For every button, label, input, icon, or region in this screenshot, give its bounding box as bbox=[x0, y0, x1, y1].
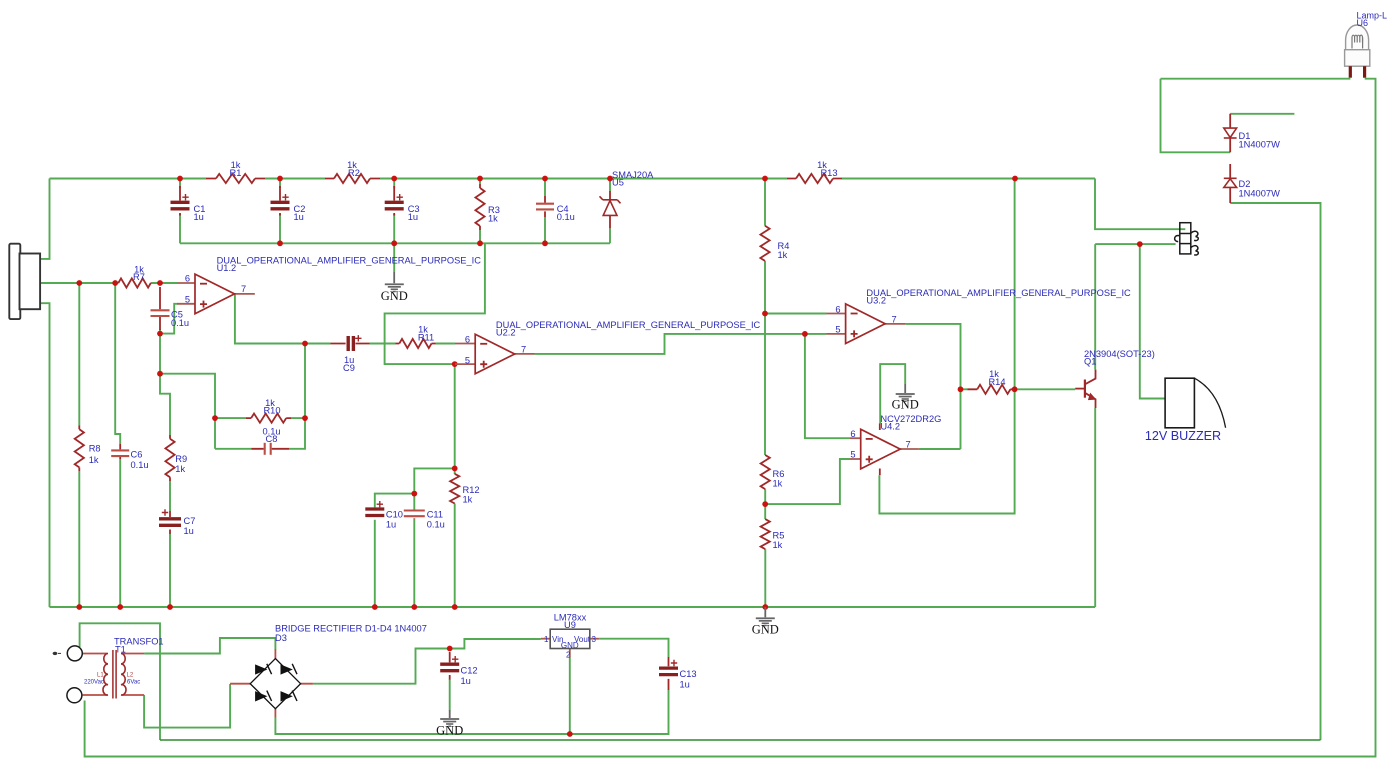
wire collector row bbox=[1095, 243, 1175, 245]
capacitor C12 plus mark bbox=[452, 656, 458, 662]
svg-text:6: 6 bbox=[185, 274, 190, 284]
svg-text:1k: 1k bbox=[778, 250, 788, 260]
wire bridge minus row bbox=[275, 690, 668, 734]
svg-text:1u: 1u bbox=[194, 212, 204, 222]
wire U3.2 pin5 col to U4.2 pin6 bbox=[805, 334, 850, 438]
svg-text:6: 6 bbox=[850, 429, 855, 439]
junction at 115.2,283 bbox=[112, 280, 118, 286]
svg-text:U9: U9 bbox=[564, 620, 576, 630]
op-amp U4.2 bottom supply pin bbox=[879, 469, 881, 476]
resistor R4 bbox=[760, 226, 769, 261]
capacitor C2 plates bbox=[271, 202, 290, 209]
junction at 804.9,333.9 bbox=[802, 331, 808, 337]
svg-text:DUAL_OPERATIONAL_AMPLIFIER_GEN: DUAL_OPERATIONAL_AMPLIFIER_GENERAL_PURPO… bbox=[496, 320, 761, 330]
ground GND4 bbox=[440, 718, 459, 727]
junction at 765,178.5 bbox=[762, 176, 768, 182]
svg-text:C12: C12 bbox=[461, 666, 478, 676]
wire R14 left stub bbox=[961, 388, 968, 390]
capacitor C7 plus mark bbox=[162, 509, 168, 515]
junction at 120.2,607 bbox=[117, 604, 123, 610]
wire D1 top stub row bbox=[1230, 113, 1294, 115]
diode D2 bbox=[1224, 178, 1237, 187]
junction at 180,178.5 bbox=[177, 176, 183, 182]
resistor R8 leads bbox=[78, 426, 80, 472]
capacitor C6 leads bbox=[119, 444, 121, 459]
junction at 1139.8,244.1 bbox=[1137, 241, 1143, 247]
capacitor C13 plus mark bbox=[671, 660, 677, 666]
svg-text:R10: R10 bbox=[263, 406, 280, 416]
ground GND2 stem bbox=[764, 607, 766, 617]
resistor R12 leads bbox=[454, 474, 456, 504]
svg-text:5: 5 bbox=[835, 325, 840, 335]
svg-text:1k: 1k bbox=[488, 213, 498, 223]
wire R3 bottom stub bbox=[479, 230, 481, 243]
wire R12 top link bbox=[414, 468, 454, 493]
svg-text:GND: GND bbox=[381, 289, 408, 303]
wire C11 bottom bbox=[413, 519, 415, 607]
junction at 765.3,607 bbox=[762, 604, 768, 610]
svg-text:R13: R13 bbox=[820, 168, 837, 178]
svg-text:1u: 1u bbox=[461, 676, 471, 686]
junction at 480,178.5 bbox=[477, 176, 483, 182]
op-amp U1.2 bbox=[195, 274, 235, 314]
wire C12 to U9 jog bbox=[450, 639, 541, 649]
transformer T1 secondary pins bbox=[122, 654, 145, 696]
wire C8 row right bbox=[289, 344, 305, 449]
resistor R3 bbox=[475, 188, 484, 226]
op-amp U4.2 pin6 lead bbox=[850, 437, 861, 439]
capacitor C3 plus mark bbox=[397, 194, 403, 200]
junction at 160,373.7 bbox=[157, 371, 163, 377]
AC plug P1 mark bbox=[53, 652, 58, 655]
svg-text:U2.2: U2.2 bbox=[496, 328, 516, 338]
transistor Q1 bbox=[1075, 370, 1095, 408]
junction at 765,313.5 bbox=[762, 311, 768, 317]
junction at 960.5,389.3 bbox=[958, 386, 964, 392]
svg-text:7: 7 bbox=[241, 284, 246, 294]
zener diode U5 bbox=[600, 196, 621, 215]
wire top bus segment D bbox=[842, 178, 1095, 180]
op-amp U3.2 pin6 lead bbox=[827, 313, 846, 315]
junction at 569.8,734 bbox=[567, 731, 573, 737]
op-amp U4.2 top supply pin bbox=[879, 424, 881, 431]
junction at 1014.6,389.3 bbox=[1012, 386, 1018, 392]
wire node to R9 jog bbox=[160, 374, 170, 435]
resistor R12 bbox=[450, 474, 459, 504]
svg-text:R11: R11 bbox=[418, 332, 434, 342]
wire C10 bottom bbox=[374, 520, 376, 607]
wire C4 top stub bbox=[544, 179, 546, 197]
junction at 414.3,607 bbox=[411, 604, 417, 610]
wire top bus segment A bbox=[50, 178, 207, 180]
op-amp U4.2 pin7 lead bbox=[898, 448, 919, 450]
wire C1 top stub bbox=[179, 179, 181, 189]
resistor R8 bbox=[75, 429, 84, 467]
capacitor C3 leads bbox=[393, 186, 395, 216]
wire U2.2 output row bbox=[535, 334, 827, 354]
wire top bus segment B bbox=[265, 178, 325, 180]
ground GND1 stem bbox=[393, 272, 395, 283]
resistor R11 leads bbox=[396, 343, 436, 345]
junction at 545,243.3 bbox=[542, 240, 548, 246]
wire C9 right link bbox=[370, 343, 396, 345]
wire C6 column bottom bbox=[119, 459, 121, 607]
wire C1 bottom stub bbox=[179, 214, 181, 243]
wire R14 to Q1 base bbox=[1015, 388, 1076, 390]
capacitor C8 plates bbox=[265, 443, 271, 455]
wire R5 node to U4.2 pin5 bbox=[765, 459, 850, 504]
svg-text:T1: T1 bbox=[115, 644, 126, 654]
wire rail to U2.2 pin5 bbox=[385, 243, 485, 364]
capacitor C10 leads bbox=[374, 507, 376, 520]
capacitor C1 leads bbox=[179, 186, 181, 216]
op-amp U3.2 pin5 lead bbox=[827, 333, 846, 335]
capacitor C7 plates bbox=[159, 519, 181, 526]
junction at 305,343.5 bbox=[302, 341, 308, 347]
svg-text:BRIDGE RECTIFIER D1-D4 1N4007: BRIDGE RECTIFIER D1-D4 1N4007 bbox=[275, 624, 427, 634]
wire R12 bottom bbox=[454, 504, 456, 608]
svg-text:C8: C8 bbox=[266, 434, 278, 444]
op-amp U4.2 pin5 lead bbox=[850, 458, 861, 460]
junction at 79.3,283 bbox=[76, 280, 82, 286]
wire mains row dark bbox=[160, 739, 1321, 741]
wire C11 top stub bbox=[413, 494, 415, 510]
svg-text:L2: L2 bbox=[127, 673, 134, 679]
capacitor C6 plates bbox=[111, 450, 129, 456]
junction at 394.2,178.5 bbox=[391, 176, 397, 182]
wire U2.2 pin5 col down bbox=[454, 364, 456, 468]
svg-text:R5: R5 bbox=[773, 531, 785, 541]
wire ground bus bbox=[50, 606, 1096, 608]
junction at 454.7,364.1 bbox=[452, 361, 458, 367]
capacitor C8 leads bbox=[252, 448, 290, 450]
capacitor C11 plates bbox=[404, 511, 425, 517]
svg-text:C11: C11 bbox=[427, 510, 443, 520]
junction at 454.7,468.4 bbox=[452, 466, 458, 472]
svg-text:R7: R7 bbox=[133, 272, 145, 282]
junction at 305,418.1 bbox=[302, 415, 308, 421]
svg-text:1k: 1k bbox=[175, 464, 185, 474]
junction at 170,607 bbox=[167, 604, 173, 610]
svg-text:C10: C10 bbox=[386, 510, 403, 520]
svg-text:5: 5 bbox=[185, 295, 190, 305]
wire R8 column top bbox=[78, 283, 80, 426]
wire R10 left link bbox=[215, 417, 246, 419]
capacitor C9 plates bbox=[348, 336, 353, 351]
svg-text:L1: L1 bbox=[97, 673, 104, 679]
op-amp U1.2 pin7 lead bbox=[235, 293, 255, 295]
svg-text:6: 6 bbox=[465, 335, 470, 345]
svg-text:7: 7 bbox=[521, 344, 526, 354]
wire U5 bottom stub bbox=[609, 228, 611, 243]
svg-text:R12: R12 bbox=[463, 485, 480, 495]
svg-text:6Vac: 6Vac bbox=[127, 680, 140, 686]
capacitor C10 plus mark bbox=[377, 501, 383, 507]
lamp U6 bbox=[1345, 25, 1370, 66]
junction at 160,333.6 bbox=[157, 331, 163, 337]
svg-text:1k: 1k bbox=[89, 455, 99, 465]
capacitor C4 plates bbox=[536, 204, 554, 210]
wire top bus segment C bbox=[380, 178, 787, 180]
svg-text:5: 5 bbox=[465, 355, 470, 365]
transformer T1 windings bbox=[103, 650, 126, 699]
wire D1 bottom loop bbox=[1161, 79, 1231, 153]
junction at 280,178.5 bbox=[277, 176, 283, 182]
resistor R1 leads bbox=[206, 178, 265, 180]
op-amp U2.2 bbox=[475, 334, 515, 374]
wire R7 to C5 node bbox=[151, 282, 177, 284]
wire C3 bottom stub bbox=[393, 214, 395, 243]
svg-text:220Vac: 220Vac bbox=[84, 680, 104, 686]
svg-text:R6: R6 bbox=[773, 469, 785, 479]
svg-text:7: 7 bbox=[892, 314, 897, 324]
svg-text:R2: R2 bbox=[348, 168, 360, 178]
op-amp U2.2 pin5 lead bbox=[455, 363, 475, 365]
wire GND1 stub bbox=[393, 243, 395, 272]
wire R11 to U2.2 pin6 bbox=[436, 343, 456, 345]
U9 pin2 lead bbox=[569, 649, 571, 658]
wire R9 to C7 bbox=[169, 481, 171, 511]
svg-text:0.1u: 0.1u bbox=[171, 318, 189, 328]
svg-text:R8: R8 bbox=[89, 444, 101, 454]
capacitor C13 leads bbox=[668, 657, 670, 690]
svg-text:R14: R14 bbox=[988, 377, 1005, 387]
wire R8 column bottom bbox=[78, 471, 80, 607]
resistor R13 leads bbox=[787, 178, 842, 180]
junction at 454.7,607 bbox=[452, 604, 458, 610]
bridge rectifier D3 diodes bbox=[256, 664, 297, 701]
wire U9 out to C13 bbox=[599, 639, 668, 657]
svg-text:U5: U5 bbox=[612, 178, 624, 188]
svg-text:U1.2: U1.2 bbox=[217, 263, 237, 273]
wire U4.2 vplus loop bbox=[879, 179, 1014, 514]
wire U3.2 pin6 row bbox=[765, 313, 827, 315]
op-amp U1.2 pin6 lead bbox=[177, 282, 195, 284]
wire Q1 emitter col bbox=[1094, 408, 1096, 607]
svg-text:1u: 1u bbox=[184, 526, 194, 536]
junction at 280,243.3 bbox=[277, 240, 283, 246]
svg-text:1u: 1u bbox=[408, 212, 418, 222]
wire C12 bottom bbox=[449, 679, 451, 711]
svg-text:3: 3 bbox=[592, 635, 597, 644]
junction at 414.3,493.6 bbox=[411, 491, 417, 497]
capacitor C1 plus mark bbox=[182, 194, 188, 200]
svg-text:2: 2 bbox=[566, 651, 571, 660]
wire C3 top stub bbox=[393, 179, 395, 189]
capacitor C12 plates bbox=[440, 664, 459, 671]
capacitor C13 plates bbox=[659, 668, 678, 675]
svg-text:U4.2: U4.2 bbox=[880, 422, 900, 432]
svg-text:Q1: Q1 bbox=[1084, 357, 1096, 367]
op-amp U1.2 pin5 lead bbox=[177, 303, 195, 305]
wire R5 bottom bbox=[764, 549, 766, 607]
ground GND3 bbox=[896, 393, 915, 402]
wire mid rail bbox=[180, 242, 610, 244]
resistor R11 bbox=[399, 339, 431, 348]
resistor R13 bbox=[796, 174, 833, 183]
resistor R9 leads bbox=[169, 435, 171, 481]
op-amp U2.2 pin6 lead bbox=[455, 343, 475, 345]
svg-text:U6: U6 bbox=[1357, 18, 1369, 28]
zener diode U5 leads bbox=[609, 191, 611, 228]
wire R10 right link bbox=[291, 417, 305, 419]
wire plug1 over loop bbox=[80, 623, 160, 740]
wire R10 feedback top bbox=[160, 374, 215, 449]
svg-text:D2: D2 bbox=[1239, 179, 1251, 189]
junction at 765.2,504.1 bbox=[762, 501, 768, 507]
junction at 374.8,607 bbox=[372, 604, 378, 610]
resistor R2 bbox=[334, 174, 370, 183]
AC plug P1 bbox=[67, 646, 82, 661]
svg-text:6: 6 bbox=[835, 304, 840, 314]
svg-text:0.1u: 0.1u bbox=[427, 519, 445, 529]
wire mic top stub to top bus bbox=[40, 179, 50, 259]
svg-text:C7: C7 bbox=[184, 516, 196, 526]
wire U1.2 output down bbox=[235, 294, 331, 344]
svg-text:1N4007W: 1N4007W bbox=[1239, 188, 1281, 198]
svg-text:DUAL_OPERATIONAL_AMPLIFIER_GEN: DUAL_OPERATIONAL_AMPLIFIER_GENERAL_PURPO… bbox=[217, 256, 482, 266]
op-amp U2.2 pin7 lead bbox=[515, 353, 535, 355]
ground GND1 bbox=[385, 283, 404, 292]
capacitor C9 plus mark bbox=[355, 335, 361, 341]
wire U4.2 output link bbox=[919, 448, 961, 450]
svg-text:1: 1 bbox=[544, 635, 549, 644]
resistor R10 bbox=[251, 414, 286, 423]
wire U9 gnd col bbox=[569, 657, 571, 734]
junction at 1015,178.5 bbox=[1012, 176, 1018, 182]
capacitor C3 plates bbox=[385, 202, 404, 209]
wire U5 top stub bbox=[609, 179, 611, 192]
AC plug P2 bbox=[67, 688, 82, 703]
svg-text:C9: C9 bbox=[343, 363, 355, 373]
junction at 394.2,243.3 bbox=[391, 240, 397, 246]
svg-text:C13: C13 bbox=[680, 669, 697, 679]
wire C8 row left bbox=[215, 448, 252, 450]
resistor R10 leads bbox=[246, 417, 291, 419]
op-amp U3.2 pin7 lead bbox=[885, 323, 906, 325]
op-amp U4.2 bbox=[861, 429, 901, 469]
wire R4 top stub bbox=[764, 179, 766, 226]
resistor R1 bbox=[216, 174, 255, 183]
svg-text:7: 7 bbox=[906, 440, 911, 450]
diode D1 leads bbox=[1229, 114, 1231, 153]
wire R4 bottom to pin6 node bbox=[764, 261, 766, 314]
wire C2 top stub bbox=[279, 179, 281, 189]
bridge D3 pin stubs bbox=[230, 649, 313, 718]
wire pin5 U1.2 jog bbox=[160, 304, 178, 334]
diode D2 leads bbox=[1229, 164, 1231, 203]
ground GND3 stem bbox=[904, 384, 906, 393]
ground GND4 stem bbox=[449, 710, 451, 718]
junction at 215,418.1 bbox=[212, 415, 218, 421]
wire mic signal row bbox=[40, 282, 116, 284]
svg-text:1k: 1k bbox=[773, 479, 783, 489]
resistor R5 bbox=[761, 519, 770, 549]
svg-text:1u: 1u bbox=[294, 212, 304, 222]
svg-text:GND: GND bbox=[892, 397, 919, 411]
svg-text:1u: 1u bbox=[680, 680, 690, 690]
capacitor C2 plus mark bbox=[282, 194, 288, 200]
svg-text:GND: GND bbox=[561, 641, 579, 650]
svg-text:D3: D3 bbox=[275, 633, 287, 643]
junction at 480,243.3 bbox=[477, 240, 483, 246]
resistor R6 leads bbox=[764, 455, 766, 489]
capacitor C7 leads bbox=[169, 511, 171, 534]
svg-text:R9: R9 bbox=[175, 454, 187, 464]
wire collector col bbox=[1094, 244, 1096, 370]
junction at 610,178.5 bbox=[607, 176, 613, 182]
capacitor C11 leads bbox=[413, 510, 415, 520]
resistor R7 leads bbox=[116, 282, 151, 284]
svg-text:GND: GND bbox=[436, 724, 463, 738]
svg-text:R1: R1 bbox=[230, 168, 242, 178]
svg-text:DUAL_OPERATIONAL_AMPLIFIER_GEN: DUAL_OPERATIONAL_AMPLIFIER_GENERAL_PURPO… bbox=[866, 288, 1131, 298]
svg-text:1k: 1k bbox=[463, 495, 473, 505]
wire R12 top stub bbox=[454, 468, 456, 474]
wire U3.2 output bbox=[905, 324, 960, 449]
wire C7 bottom bbox=[169, 534, 171, 607]
wire C6 column top bbox=[115, 283, 120, 444]
capacitor C10 plates bbox=[365, 509, 384, 516]
capacitor C1 plates bbox=[171, 202, 190, 209]
op-amp U3.2 bbox=[846, 304, 886, 344]
wire C2 bottom stub bbox=[279, 214, 281, 243]
transformer T1 primary pins bbox=[83, 654, 108, 696]
wire R6 to R5 node bbox=[764, 489, 766, 519]
svg-text:5: 5 bbox=[850, 450, 855, 460]
resistor R3 leads bbox=[479, 184, 481, 230]
svg-text:1N4007W: 1N4007W bbox=[1239, 139, 1281, 149]
svg-text:GND: GND bbox=[752, 623, 779, 637]
svg-text:12V BUZZER: 12V BUZZER bbox=[1145, 429, 1221, 443]
svg-text:0.1u: 0.1u bbox=[557, 212, 575, 222]
wire GND3 elbow bbox=[880, 364, 905, 423]
capacitor C5 leads bbox=[159, 287, 161, 330]
wire buzzer feed bbox=[1140, 244, 1165, 398]
capacitor C9 leads bbox=[331, 343, 370, 345]
capacitor C2 leads bbox=[279, 186, 281, 216]
resistor R9 bbox=[165, 439, 174, 478]
wire R4 node to R6 bbox=[764, 314, 766, 456]
resistor R4 leads bbox=[764, 226, 766, 261]
wire top bus to connector pin1 bbox=[1095, 179, 1185, 230]
connector J1 bbox=[1175, 223, 1199, 255]
svg-text:0.1u: 0.1u bbox=[131, 460, 149, 470]
svg-text:C6: C6 bbox=[131, 450, 143, 460]
bridge rectifier D3 body bbox=[250, 659, 300, 709]
resistor R2 leads bbox=[325, 178, 380, 180]
capacitor C4 leads bbox=[544, 196, 546, 217]
wire mic gnd stub bbox=[40, 303, 50, 607]
buzzer LS1 bbox=[1165, 378, 1226, 428]
resistor R6 bbox=[761, 455, 770, 489]
capacitor C5 plates bbox=[151, 310, 170, 316]
wire C10 link bbox=[375, 494, 415, 507]
wire transformer sec top bbox=[144, 638, 275, 654]
capacitor C12 leads bbox=[449, 652, 451, 680]
microphone MK1 bbox=[9, 244, 40, 319]
regulator U9 body bbox=[550, 629, 590, 648]
U9 pin3 lead bbox=[590, 638, 600, 640]
junction at 79.3,607 bbox=[76, 604, 82, 610]
resistor R14 bbox=[977, 385, 1010, 394]
junction at 449.7,648.5 bbox=[447, 646, 453, 652]
wire C4 bottom stub bbox=[544, 217, 546, 243]
diode D1 bbox=[1224, 128, 1237, 138]
svg-text:1k: 1k bbox=[773, 540, 783, 550]
wire transformer sec bottom bbox=[144, 684, 230, 728]
svg-text:1u: 1u bbox=[386, 519, 396, 529]
